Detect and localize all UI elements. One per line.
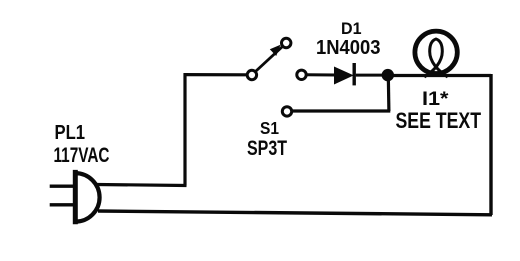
wire plug top lead to riser [97,185,187,186]
svg-text:S1: S1 [260,118,279,138]
wire riser vertical [183,73,186,185]
switch arm arrowhead [270,45,281,56]
wire bottom return to plug [98,211,492,215]
lamp I1 filament loop [424,39,447,77]
diode D1 cathode bar [353,63,356,85]
wire middle throw to diode [307,73,336,76]
plug prong upper [50,184,76,187]
svg-text:SEE TEXT: SEE TEXT [396,108,482,133]
lamp I1 envelope [415,31,457,73]
wire junction down to lower throw wire [387,75,391,111]
switch arm [256,47,283,72]
diode D1 triangle [335,67,353,83]
plug prong lower [50,203,76,206]
svg-text:1N4003: 1N4003 [316,37,381,59]
junction node dot [382,69,394,81]
svg-text:D1: D1 [341,19,362,38]
svg-text:117VAC: 117VAC [54,143,110,167]
wire right side vertical [489,74,492,215]
wire diode to junction [356,74,384,77]
switch lower throw contact [282,107,291,116]
switch upper throw contact [282,38,291,47]
wire riser top to switch pole [184,73,247,76]
switch S1 pole contact [247,70,256,79]
plug PL1 body [75,170,99,224]
svg-text:SP3T: SP3T [247,136,287,160]
switch middle throw contact [297,70,306,79]
wire lower throw to junction branch [292,109,390,112]
svg-text:I1*: I1* [422,89,449,110]
svg-text:PL1: PL1 [55,122,86,144]
wire junction to top-right corner [393,74,491,77]
